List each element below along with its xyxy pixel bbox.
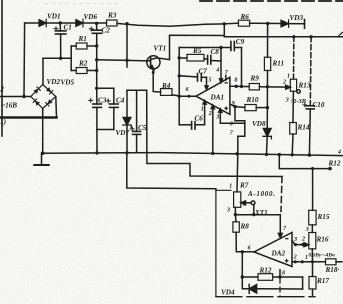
wire DA2 pin2 row (292, 261, 326, 263)
wire DA2 pin3 row (292, 241, 305, 245)
diode VD4 (242, 277, 302, 293)
node ground rail left junction (41, 151, 45, 155)
wire R12net rail drop (279, 155, 330, 169)
wire C3C4 bottom link (97, 129, 114, 131)
svg-text:R17: R17 (316, 277, 329, 285)
svg-text:6: 6 (248, 246, 251, 252)
svg-text:9: 9 (232, 101, 235, 107)
wire L1 reference feed down-right (147, 90, 282, 176)
resistor R12 (242, 274, 302, 281)
svg-text:VD8: VD8 (252, 120, 266, 128)
resistor R6 (238, 20, 249, 26)
resistor R3 (107, 20, 118, 26)
wire collector riser to top rail (223, 24, 225, 37)
node pin3 row a (294, 243, 297, 246)
wire C3 bottom to ground (96, 130, 98, 153)
wire VD6 to R3 (83, 22, 107, 24)
wire DA2 pin8 stub (279, 270, 281, 277)
resistor R11 (vertical) (264, 57, 270, 70)
wire L1 dash continuation down (281, 177, 282, 212)
node pin9 junction (233, 105, 236, 108)
wire R7 wiper arrow (241, 201, 251, 205)
svg-text:3: 3 (305, 227, 309, 233)
wire plus rail right section (224, 36, 343, 38)
resistor R9 (249, 84, 288, 90)
frame dash vertical below DA2 pin8 (279, 278, 281, 297)
svg-text:VD6: VD6 (84, 13, 98, 21)
svg-text:6: 6 (230, 121, 233, 127)
wire DA1 pin3 down (220, 109, 245, 123)
svg-text:C6: C6 (195, 115, 204, 123)
wire zener node to L1 corner (127, 89, 147, 91)
wire DA1 input rail (178, 48, 180, 125)
node R9 R11 junction (266, 85, 269, 88)
svg-text:R4: R4 (161, 82, 171, 90)
wire pin7 stub (225, 76, 227, 81)
resistor R17 (vertical) (309, 277, 316, 290)
svg-text:R11: R11 (272, 60, 285, 68)
svg-text:R8: R8 (240, 223, 250, 231)
svg-text:C1: C1 (64, 24, 72, 32)
svg-text:VD3: VD3 (290, 14, 304, 22)
potentiometer R13 (290, 79, 296, 91)
node C3C4 ground junction (95, 151, 98, 154)
svg-text:C10: C10 (313, 101, 325, 109)
wire C9 drop to pin8 (241, 48, 243, 87)
wire pin8 (230, 85, 249, 87)
wire pin5 arrow (205, 77, 208, 89)
svg-text:VD4: VD4 (221, 289, 235, 297)
frame left border (1, 0, 3, 136)
svg-text:1: 1 (287, 74, 290, 80)
capacitor C7 (179, 74, 206, 82)
svg-text:VD2: VD2 (47, 78, 61, 86)
rectifier bridge VD2-VD5 diamond (31, 85, 56, 109)
resistor R10 (245, 105, 268, 111)
ground symbol (34, 153, 48, 165)
node emitter blob (152, 71, 155, 74)
svg-text:VD7: VD7 (116, 129, 130, 137)
node C10 ground junction (308, 153, 311, 156)
svg-text:4: 4 (215, 68, 219, 74)
svg-text:R1: R1 (78, 35, 87, 43)
resistor R15 (vertical) (309, 210, 316, 225)
wire pin8 to pin9 junction (266, 87, 268, 108)
wire bridge AC2 to left edge (thick) (55, 97, 58, 118)
node C1 top junction (59, 21, 62, 24)
node C2 bottom junction (95, 44, 98, 47)
wire L2 stub right (216, 189, 231, 191)
node R13 top junction (292, 35, 295, 38)
wire R7 bottom row (235, 214, 280, 216)
node R12net ground junction (278, 153, 281, 156)
wire C9 feedback top (179, 47, 231, 49)
da1 plus (224, 107, 228, 111)
svg-text:R12: R12 (259, 267, 272, 275)
svg-text:6: 6 (186, 87, 189, 93)
transistor VT1 (147, 56, 160, 70)
diode VD1 (39, 19, 46, 27)
svg-text:C7: C7 (199, 68, 208, 76)
wire R16 wiper arrow (304, 243, 309, 247)
svg-text:А-1000.: А-1000. (247, 190, 276, 198)
svg-text:↑2-3В: ↑2-3В (290, 98, 307, 105)
svg-text:VD5: VD5 (61, 79, 75, 87)
wire R1R2 left rail (70, 46, 72, 71)
svg-text:VD1: VD1 (47, 13, 61, 21)
plus mark C1 (54, 27, 58, 31)
wire pin9 (230, 104, 245, 107)
node VD7 ground junction (125, 151, 128, 154)
svg-text:R12: R12 (328, 160, 341, 168)
node R7 bottom junction (234, 213, 237, 216)
wire VD7 rail upper (126, 24, 128, 67)
node base wire junction (95, 58, 98, 61)
wire R16 bottom to pin2 row (311, 249, 313, 262)
wire VT1 base from divider (97, 60, 147, 61)
wire rail to R6 (224, 22, 238, 25)
node R17 top junction (311, 260, 314, 263)
wire pin4 line (220, 48, 223, 83)
resistor R2 (71, 68, 97, 74)
wire R3 to rail right (117, 23, 224, 26)
node C10 top junction (309, 35, 312, 38)
resistor R8 (233, 215, 254, 252)
capacitor C3 (93, 88, 102, 129)
svg-text:C4: C4 (116, 97, 125, 105)
svg-text:ХТ1: ХТ1 (254, 209, 268, 217)
svg-text:4: 4 (337, 150, 341, 156)
svg-text:R10: R10 (246, 96, 259, 104)
svg-text:R9: R9 (250, 75, 260, 83)
capacitor C6 (179, 122, 195, 129)
svg-text:C9: C9 (236, 38, 245, 46)
op-amp DA2 (254, 233, 292, 267)
svg-text:R18·: R18· (325, 266, 340, 274)
resistor R5 (179, 54, 204, 61)
wire bridge minus down to ground (42, 109, 44, 154)
svg-text:VT1: VT1 (154, 45, 167, 53)
node pin4 top junction (219, 46, 222, 49)
node C3 C4 top junction (95, 87, 98, 90)
wire VT1 collector riser (157, 35, 224, 59)
diode VD6 (76, 19, 83, 27)
svg-text:R3: R3 (107, 12, 117, 20)
plus mark C3 (89, 98, 93, 102)
capacitor C9 (231, 42, 242, 51)
frame top dashed border (200, 0, 343, 2)
capacitor C4 (97, 88, 118, 129)
plus mark C4 (106, 99, 110, 103)
wire DA1 output (179, 95, 196, 97)
svg-text:0,6Вy·~4Вч: 0,6Вy·~4Вч (309, 253, 336, 259)
wire tap down to bridge top (42, 58, 44, 84)
node R15 tap junction (311, 167, 314, 170)
terminal XT1 circle (251, 201, 255, 205)
wire R14 to ground (291, 134, 294, 155)
svg-text:R14: R14 (297, 124, 310, 132)
svg-text:2: 2 (242, 202, 246, 208)
node R5 tap junction (178, 56, 181, 59)
wire R1R2 right rail (96, 44, 98, 88)
svg-text:2: 2 (0, 86, 4, 94)
svg-text:R6: R6 (240, 13, 250, 21)
node R10 VD8 junction (266, 106, 269, 109)
svg-text:2: 2 (282, 80, 286, 86)
svg-text:~16В: ~16В (1, 102, 17, 110)
node R12 line left junction (241, 275, 244, 278)
node C2 top junction (95, 22, 98, 25)
zener VD7 (123, 118, 131, 153)
node AC1 left rail junction (22, 95, 25, 98)
node pin8 junction a (235, 85, 238, 88)
wire R13 wiper arrow (286, 85, 291, 89)
da2 minus (285, 238, 288, 239)
frame left edge of DA2 block (215, 189, 217, 297)
svg-text:R16: R16 (316, 236, 329, 244)
wire R15 tap down (312, 169, 314, 211)
node DA1 output junction (178, 95, 181, 98)
svg-text:1: 1 (201, 107, 204, 113)
plus mark C2 (89, 27, 93, 31)
wire R13 top drop (293, 37, 295, 79)
frame top faint dots (45, 3, 118, 5)
svg-text:8: 8 (282, 271, 285, 277)
frame bottom dashed border (216, 296, 315, 298)
svg-text:3: 3 (215, 115, 219, 121)
potentiometer R7 (234, 192, 241, 215)
node R14 ground junction (291, 153, 294, 156)
plus mark C5 (130, 127, 134, 131)
potentiometer R16 (309, 233, 316, 249)
svg-text:2: 2 (301, 237, 305, 243)
wire DA1 pin1 to C6 (195, 101, 205, 125)
capacitor C1 (55, 23, 66, 58)
svg-text:DA2: DA2 (271, 250, 286, 258)
node pin8 junction b (240, 85, 243, 88)
plus mark C10 (303, 103, 307, 107)
wire plus rail end tick (339, 32, 343, 35)
svg-text:8: 8 (235, 78, 238, 84)
svg-text:2: 2 (208, 111, 212, 117)
svg-text:5: 5 (209, 78, 212, 84)
wire VT1 emitter down (153, 70, 161, 93)
wire C10 drop (309, 37, 312, 106)
svg-text:R15: R15 (317, 213, 330, 221)
wire VD1 to C1 node (46, 22, 76, 24)
wire L2 ground feed down-right (127, 153, 216, 189)
resistor R4 (161, 89, 180, 96)
wire DA2 pin7 drop (278, 215, 282, 238)
svg-text:R2: R2 (78, 60, 88, 68)
terminal + output bar (304, 20, 306, 29)
resistor R14 (vertical) (290, 123, 297, 135)
wire XT1 down (253, 205, 255, 215)
wire VD7 rail lower corner (126, 90, 128, 117)
resistor R18 (326, 259, 343, 265)
svg-text:1: 1 (229, 183, 232, 189)
wire top rail (25, 22, 39, 24)
svg-text:C5: C5 (138, 124, 147, 132)
svg-text:R7: R7 (239, 182, 249, 190)
svg-text:C2: C2 (102, 27, 111, 35)
wire ground rail (43, 153, 343, 156)
terminal R13 test circle (297, 90, 300, 93)
da1 minus (225, 82, 228, 83)
node pin3 row b (301, 243, 304, 246)
wire bridge AC1 input (0, 96, 31, 98)
node DA2 output junction (241, 250, 244, 253)
capacitor C5 (133, 90, 141, 152)
svg-text:C3: C3 (98, 97, 107, 105)
node R2 right junction (95, 69, 98, 72)
wire R11 branch vertical (267, 24, 269, 58)
node DA2 pin8 junction (278, 275, 281, 278)
wire R13 bottom to R14 (292, 91, 294, 122)
node pin2 row b (301, 260, 304, 263)
resistor R1 (71, 43, 97, 49)
svg-text:3: 3 (226, 208, 230, 214)
capacitor C2 (92, 23, 102, 46)
svg-text:3: 3 (285, 98, 289, 104)
node pin2 row a (294, 260, 297, 263)
svg-text:2: 2 (293, 255, 297, 261)
wire DA1 pin2 down (212, 105, 214, 153)
svg-text:3: 3 (293, 237, 297, 243)
wire R11 bottom to pin8 line (266, 71, 268, 87)
wire VD3 to output terminal (289, 23, 305, 25)
node C7 tap junction (178, 74, 181, 77)
node output blob (188, 95, 191, 98)
wire R15 to R16 (311, 225, 313, 233)
da2 plus (285, 259, 289, 263)
svg-text:R5: R5 (192, 47, 202, 55)
wire mid tap left (43, 57, 71, 59)
svg-text:C8: C8 (211, 48, 220, 56)
node VD8 ground junction (265, 153, 268, 156)
node VD7 rail top junction (125, 22, 128, 25)
op-amp DA1 (196, 77, 230, 114)
svg-text:DA1: DA1 (210, 94, 225, 102)
node R11 top junction (266, 22, 269, 25)
diode VD3 (281, 20, 289, 27)
svg-text:R13: R13 (298, 82, 311, 90)
wire left rail down (23, 23, 26, 97)
svg-text:1): 1) (0, 118, 6, 126)
capacitor C8 (204, 56, 221, 65)
node C1 bottom junction (59, 57, 62, 60)
wire staircase pin9 to R7 (235, 107, 245, 192)
node DA1 pin2 ground junction (211, 152, 214, 155)
wire R17 drop (312, 262, 314, 277)
wire DA2 output down (241, 252, 243, 277)
node R7 line rail crossing (235, 152, 238, 155)
node VD7 rail base crossing (125, 59, 128, 62)
node XT1 junction (252, 213, 255, 216)
zener VD8 (263, 108, 271, 155)
capacitor C10 (306, 106, 314, 155)
node R12net end (328, 167, 332, 171)
wire R17 bottom stub (312, 289, 314, 296)
wire R12 line right end down (302, 277, 304, 289)
node collector riser junction (223, 22, 226, 25)
wire R6 to VD3 (250, 22, 281, 24)
